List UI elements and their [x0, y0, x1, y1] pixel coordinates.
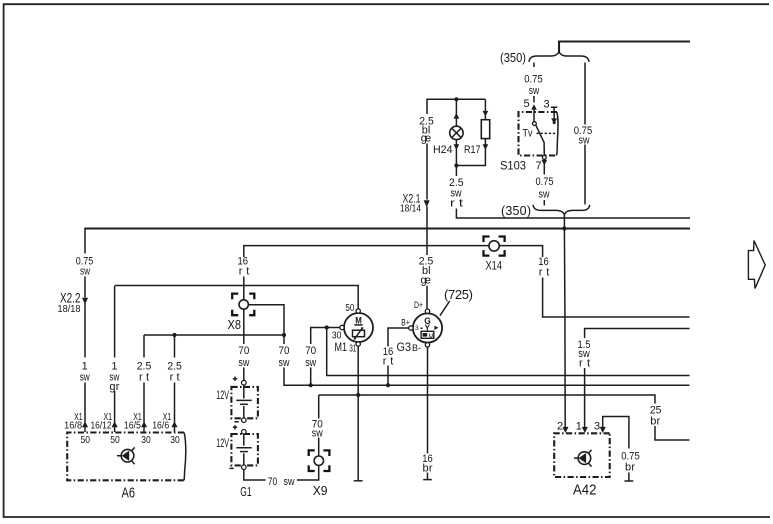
wire: 0.75 sw right branch between braces: [584, 63, 586, 205]
A6 pin arrow up col3: [141, 421, 147, 427]
wire: S103 pin5 feed 0.75 sw: [533, 63, 535, 103]
svg-text:X8: X8: [228, 318, 242, 332]
lamp H24: [450, 126, 463, 139]
svg-text:sw: sw: [529, 85, 540, 97]
svg-text:gr: gr: [109, 381, 119, 393]
wire: B1 rail from M1-30 junction: [327, 328, 690, 376]
wire: G3 B- ground drop 16 br: [427, 347, 429, 479]
svg-text:A6: A6: [122, 485, 136, 502]
connector X9 bracket: [309, 450, 330, 471]
wire: resistor R17 branch: [456, 99, 485, 165]
S103 pin5 contact circle: [533, 122, 537, 126]
switch S103 right edge: [557, 112, 559, 156]
G3 regulator box: [421, 331, 434, 338]
svg-text:G3: G3: [397, 340, 412, 354]
connector X2.1 arrow: [424, 200, 430, 207]
svg-text:R17: R17: [464, 144, 481, 156]
wire: X8 riser 16 rt: [243, 245, 245, 380]
A6 internal symbol circle: [121, 449, 134, 462]
S103 pin3 contact dot: [553, 121, 556, 124]
wire: circuit 350 top stub: [559, 41, 690, 52]
R17 upper arrow down: [483, 111, 489, 117]
A42 symbol ticks: [574, 450, 592, 467]
A42 pin3 arrow down: [600, 427, 606, 433]
ground bar M1-31: [354, 480, 363, 482]
wire: lamp H24 branch: [455, 99, 457, 165]
svg-text:1: 1: [111, 361, 117, 373]
S103 Tv actuator dashed link: [537, 132, 557, 134]
control unit A6 box: [67, 433, 184, 481]
R17 lower arrow down: [483, 144, 489, 150]
wire: rail y335 linking 2.5 rt columns to X8 branch: [144, 334, 284, 336]
lamp H24 cross spokes: [452, 128, 461, 137]
svg-text:sw: sw: [80, 372, 90, 384]
svg-text:M1: M1: [335, 340, 348, 354]
connector X14 bracket: [484, 237, 505, 256]
svg-text:1: 1: [82, 361, 88, 373]
svg-text:2.5: 2.5: [167, 361, 182, 373]
M1 solenoid diagonal arrow: [355, 328, 363, 339]
svg-text:3: 3: [594, 421, 600, 433]
junction dot H24 top: [454, 97, 458, 101]
svg-text:12V: 12V: [216, 390, 229, 402]
svg-text:U: U: [429, 333, 433, 339]
svg-text:X9: X9: [313, 484, 328, 498]
S103 pin7 arrow down: [541, 160, 547, 166]
battery G1 cell 2 box: [231, 434, 258, 465]
M1 underline: [354, 324, 362, 326]
svg-text:50: 50: [345, 302, 354, 314]
junction dot M1-30: [325, 325, 329, 329]
svg-text:0.75: 0.75: [536, 176, 554, 188]
A42 pin2 arrow down: [562, 427, 568, 433]
wire: H24 top feed bar: [427, 98, 485, 100]
wire: left 0.75 sw drop from bus to X2.2 and A6 pin 50: [84, 228, 86, 423]
wire: B3 ground rail: [319, 395, 690, 440]
M1 terminal 30 circle: [340, 325, 344, 329]
junction dot rail/col4: [172, 333, 176, 337]
svg-text:16/5: 16/5: [124, 420, 141, 431]
svg-text:70: 70: [238, 345, 249, 357]
connector X2.2 arrow: [82, 298, 88, 305]
wire: X14 horizontal from X8 riser: [244, 246, 690, 317]
H24 lower arrow down: [454, 144, 460, 150]
battery G1 cell 1 box: [231, 387, 258, 418]
A6 pin arrow up col2: [112, 421, 118, 427]
svg-text:M: M: [355, 315, 362, 325]
wire: 2.5 rt col3 from y335 rail to A6 pin 30: [143, 335, 145, 423]
svg-text:18/14: 18/14: [400, 204, 421, 215]
junction dot B2/70sw: [309, 383, 313, 387]
S103 pin 5 contact: [533, 108, 535, 122]
svg-text:2.5: 2.5: [137, 361, 152, 373]
page continuation arrow right: [748, 241, 765, 289]
svg-text:(350): (350): [501, 204, 531, 218]
brace (350) top: [529, 52, 589, 62]
svg-text:70: 70: [305, 345, 316, 357]
connector X14 circle: [489, 241, 499, 251]
M1 terminal 50 circle: [356, 309, 360, 313]
brace (350) bottom: [533, 205, 590, 215]
A42 internal symbol circle: [578, 452, 591, 465]
connector X8 bracket: [232, 294, 254, 316]
svg-text:1: 1: [576, 421, 582, 433]
junction dot G3-B+ on B2: [386, 383, 390, 387]
svg-text:3: 3: [415, 325, 419, 332]
wire: S103 pin7 down 0.75 sw: [543, 159, 545, 205]
A42 symbol triangle: [579, 453, 587, 463]
alternator G3 body: [413, 313, 442, 342]
svg-text:G1: G1: [240, 484, 251, 499]
svg-text:3: 3: [543, 99, 549, 111]
wire: 1 sw gr drop to A6 pin 50: [114, 286, 116, 423]
junction dot H24/R17 bottom: [454, 163, 458, 167]
A6 symbol triangle: [122, 451, 130, 461]
G3 terminal B- circle: [425, 343, 429, 347]
connector X8 circle: [239, 300, 248, 309]
A42 pin1 arrow down: [582, 427, 588, 433]
svg-text:0.75: 0.75: [524, 74, 543, 86]
svg-text:(350): (350): [500, 51, 526, 65]
G1 plus minus marks: [229, 377, 238, 469]
wire: A42 pin3 jumper to ground 0.75 br: [603, 417, 629, 481]
S103 pin7 contact circle: [542, 156, 546, 160]
resistor R17 body: [481, 120, 489, 139]
svg-text:br: br: [650, 416, 660, 428]
svg-text:B-: B-: [412, 343, 421, 354]
junction dot rail end on 70sw branch: [282, 333, 286, 337]
svg-text:7: 7: [535, 160, 541, 172]
svg-text:16/6: 16/6: [152, 420, 169, 431]
svg-text:ge: ge: [421, 133, 432, 145]
A6 box right edge: [184, 433, 186, 481]
svg-text:D+: D+: [414, 300, 423, 311]
svg-text:sw: sw: [539, 189, 550, 201]
svg-text:12V: 12V: [216, 438, 229, 450]
svg-text:30: 30: [170, 434, 180, 446]
svg-text:50: 50: [110, 434, 120, 446]
S103 pin5 arrow up: [531, 104, 537, 109]
junction dot M1-31 on B3: [356, 393, 360, 397]
svg-text:5: 5: [523, 98, 529, 110]
svg-text:31: 31: [349, 342, 356, 354]
svg-text:sw: sw: [284, 476, 295, 488]
wire: M1-50 feed from col2 elbow: [115, 286, 359, 309]
A6 symbol ticks: [117, 447, 135, 464]
wire: M1-31 ground drop: [357, 346, 359, 480]
battery G1 cell 2 plates: [236, 433, 251, 466]
M1 terminal 31 circle: [356, 342, 360, 346]
svg-text:X14: X14: [486, 261, 503, 273]
svg-text:A42: A42: [573, 483, 597, 499]
wire: 2.5 rt col4 from y335 rail to A6 pin 30: [174, 335, 176, 423]
S103 pin3 arrow down: [551, 118, 557, 124]
G1 terminal circles: [242, 380, 247, 385]
wire: main bus: [85, 227, 690, 229]
svg-text:Tv: Tv: [523, 127, 533, 139]
svg-text:2: 2: [557, 421, 563, 433]
svg-text:sw: sw: [80, 265, 90, 277]
svg-text:sw: sw: [312, 427, 323, 439]
svg-text:r t: r t: [450, 197, 463, 209]
svg-text:70: 70: [268, 476, 278, 488]
svg-text:H24: H24: [433, 144, 453, 156]
M1 solenoid rect: [353, 330, 365, 337]
switch S103 box: [519, 112, 558, 156]
svg-text:ge: ge: [421, 274, 432, 286]
wire: 1.5 sw rt feed to A42 pin 1: [585, 329, 690, 429]
connector X9 circle: [314, 456, 323, 465]
wire: X9 riser 70 sw: [244, 395, 319, 480]
svg-text:16/8: 16/8: [64, 420, 82, 431]
S103 switch blade: [536, 125, 544, 155]
wire: X8 right branch 70 sw down to B2 rail: [248, 305, 689, 386]
svg-text:(725): (725): [444, 287, 473, 302]
G3 terminal D+ circle: [425, 309, 429, 313]
A6 pin arrow up col4: [171, 421, 177, 427]
wire: M1 terminal 30 to junction and 70 sw drop: [311, 328, 340, 386]
control unit A42 box: [554, 433, 610, 477]
svg-text:sw: sw: [238, 357, 249, 369]
starter motor M1 body: [344, 313, 373, 342]
G3 terminal B+ circle: [409, 326, 413, 330]
H24 branch arrow up: [454, 113, 460, 119]
svg-text:br: br: [423, 463, 433, 475]
svg-text:br: br: [625, 462, 635, 474]
svg-text:16/12: 16/12: [91, 420, 112, 431]
svg-text:B+: B+: [401, 317, 410, 328]
A6 pin arrow up col1: [82, 421, 88, 427]
battery G1 cell 1 plates: [236, 385, 251, 418]
ground bar A42 pin3: [625, 480, 634, 482]
svg-text:50: 50: [81, 434, 91, 446]
junction dot on main bus: [562, 226, 566, 230]
svg-text:30: 30: [141, 434, 151, 446]
wire: brace to main bus and down to A42 pin 2: [563, 214, 566, 428]
svg-text:18/18: 18/18: [58, 304, 81, 315]
svg-text:sw: sw: [305, 357, 316, 369]
svg-text:sw: sw: [579, 135, 590, 147]
ground bar G3 B-: [423, 479, 432, 481]
svg-text:70: 70: [279, 345, 290, 357]
svg-text:sw: sw: [279, 357, 290, 369]
wire: 2.5 bl ge down to G3 D+: [426, 99, 428, 309]
wire: 2.5 sw rt down and right stub: [456, 166, 690, 219]
wire: G3 B+ to B2 rail 16 rt: [388, 328, 409, 385]
svg-text:S103: S103: [500, 161, 526, 173]
S103 pin 3 contact with T-bar: [551, 107, 557, 119]
